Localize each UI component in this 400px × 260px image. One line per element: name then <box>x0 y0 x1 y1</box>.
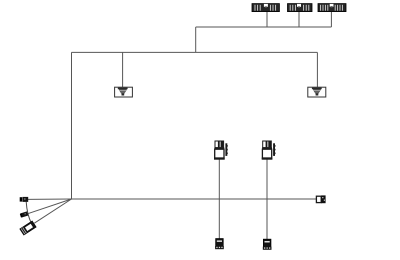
sensor connector S1 <box>214 141 228 160</box>
bus A horizontal <box>196 26 332 28</box>
wire sensor S2 to bottom connector B2 <box>266 160 268 240</box>
wire from connector C2 to bus A <box>298 12 300 28</box>
ground terminal G2 <box>308 87 326 97</box>
sensor connector S2 <box>262 141 276 160</box>
wire to ground G1 <box>122 52 124 87</box>
bottom connector B1 <box>215 239 224 250</box>
branch wire to left connector P1 <box>28 198 72 200</box>
wire sensor S1 to bottom connector B1 <box>218 160 220 239</box>
left branch connector P1 <box>20 197 29 202</box>
left branch connector P3 <box>20 221 36 235</box>
trunk horizontal wire to right connector <box>72 198 317 200</box>
wire from connector C1 to bus A <box>266 12 268 28</box>
wire to ground G2 <box>316 52 318 87</box>
connector C3 (top multipin, wider) <box>318 4 346 12</box>
left trunk vertical wire <box>71 52 73 199</box>
left branch connector P2 <box>20 211 29 217</box>
bus B horizontal <box>72 51 318 53</box>
right end connector R1 <box>316 195 325 203</box>
connector C2 (top multipin) <box>288 4 313 12</box>
harness arc through left branch connectors <box>26 202 31 224</box>
wire from connector C3 to bus A <box>330 12 332 28</box>
wire bus A to bus B <box>195 27 197 52</box>
bottom connector B2 <box>263 239 272 250</box>
connector C1 (top multipin) <box>252 4 279 12</box>
ground terminal G1 <box>115 87 133 97</box>
branch wire to left connector P2 <box>27 199 71 214</box>
branch wire to left connector P3 <box>34 199 71 223</box>
